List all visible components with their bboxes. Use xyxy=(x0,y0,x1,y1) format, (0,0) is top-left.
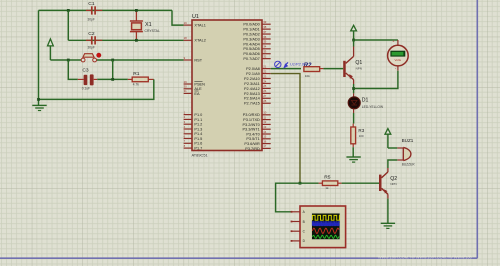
pin P2.5/A13 (26) xyxy=(244,89,271,96)
svg-text:36: 36 xyxy=(263,35,267,39)
svg-text:P2.5/A13: P2.5/A13 xyxy=(244,92,260,96)
svg-text:25: 25 xyxy=(263,84,267,88)
wire buzzer bottom to Q2 collector xyxy=(388,160,397,168)
net label text U1/P2.0 xyxy=(290,62,305,67)
svg-text:13: 13 xyxy=(263,125,267,129)
svg-text:P0.0/AD0: P0.0/AD0 xyxy=(243,23,259,27)
svg-text:P1.5: P1.5 xyxy=(194,137,202,141)
svg-text:LED-YELLOW: LED-YELLOW xyxy=(362,105,384,109)
wire voltmeter top xyxy=(354,39,398,41)
pin P0.7/AD7 (32) xyxy=(243,54,270,61)
scope pin D xyxy=(291,239,306,243)
svg-text:P1.2: P1.2 xyxy=(194,123,202,127)
svg-text:PSEN: PSEN xyxy=(194,82,205,86)
wire P2.1 net (olive) xyxy=(271,74,300,184)
pin P3.0/RXD (10) xyxy=(243,111,271,118)
svg-text:12: 12 xyxy=(263,120,267,124)
pin P1.5 (6) xyxy=(184,134,203,141)
wire Q1 emitter down xyxy=(353,84,355,93)
svg-text:P0.1/AD1: P0.1/AD1 xyxy=(243,28,259,32)
IC U1 AT89C51 body xyxy=(192,14,263,158)
wire ground rail vertical xyxy=(38,10,40,105)
pin P2.7/A15 (28) xyxy=(244,99,271,106)
svg-text:10: 10 xyxy=(263,111,267,115)
svg-text:P2.7/A15: P2.7/A15 xyxy=(244,102,260,106)
resistor R2 label xyxy=(304,62,312,69)
voltmeter DC xyxy=(388,39,409,71)
svg-text:XTAL1: XTAL1 xyxy=(194,24,205,28)
svg-text:P1.6: P1.6 xyxy=(194,142,202,146)
svg-text:P3.1/TXD: P3.1/TXD xyxy=(243,118,260,122)
svg-text:NPN: NPN xyxy=(356,67,362,71)
pin ALE (30) xyxy=(184,85,203,92)
resistor R5 xyxy=(319,175,342,191)
wire voltmeter bottom to emitter xyxy=(354,71,398,89)
pin P0.2/AD2 (37) xyxy=(243,30,270,37)
svg-text:38: 38 xyxy=(263,25,267,29)
svg-text:RST: RST xyxy=(194,58,202,62)
buzzer BUZ1 xyxy=(397,138,415,167)
svg-text:C3: C3 xyxy=(82,68,89,74)
capacitor C3 xyxy=(78,68,97,91)
wire Q2 emitter to ground xyxy=(387,199,389,224)
svg-text:26: 26 xyxy=(263,89,267,93)
svg-text:P1.4: P1.4 xyxy=(194,132,203,136)
push button reset xyxy=(81,53,101,62)
pin P3.7/RD (17) xyxy=(245,144,270,151)
pin P2.3/A11 (24) xyxy=(244,79,270,86)
svg-text:AT89C51: AT89C51 xyxy=(192,152,208,157)
svg-text:23: 23 xyxy=(263,74,267,78)
wire R2 to Q1 base xyxy=(323,68,343,70)
svg-text:P3.4/T0: P3.4/T0 xyxy=(246,132,259,136)
svg-text:P3.5/T1: P3.5/T1 xyxy=(246,137,259,141)
svg-text:P1.7: P1.7 xyxy=(194,147,202,151)
pin P1.2 (3) xyxy=(184,120,203,127)
oscilloscope body xyxy=(300,206,346,248)
pin P2.2/A10 (23) xyxy=(244,74,271,81)
svg-text:BUZZER: BUZZER xyxy=(402,162,415,166)
pin P2.1/A9 (22) xyxy=(246,69,271,76)
net label icon (blue) xyxy=(275,61,289,68)
pin P0.0/AD0 (39) xyxy=(243,20,270,27)
resistor R1 xyxy=(128,71,154,87)
pin P3.2/INT0 (12) xyxy=(242,120,270,127)
svg-text:P0.5/AD5: P0.5/AD5 xyxy=(243,47,259,51)
svg-text:P2.4/A12: P2.4/A12 xyxy=(244,87,260,91)
svg-text:32: 32 xyxy=(263,54,267,58)
svg-text:P0.3/AD3: P0.3/AD3 xyxy=(243,37,259,41)
pin P1.1 (2) xyxy=(184,115,203,122)
svg-text:30pF: 30pF xyxy=(88,18,95,22)
scope trace blue xyxy=(312,222,339,226)
svg-text:BUZ1: BUZ1 xyxy=(402,138,414,143)
svg-text:P2.2/A10: P2.2/A10 xyxy=(244,77,260,81)
pin P3.1/TXD (11) xyxy=(243,115,271,122)
svg-text:P2.3/A11: P2.3/A11 xyxy=(244,82,260,86)
wire R1 to ground rail xyxy=(39,79,154,99)
scope trace green xyxy=(312,235,339,238)
svg-text:P1.0: P1.0 xyxy=(194,113,202,117)
pin P1.7 (8) xyxy=(184,144,203,151)
node Q1 collector junction xyxy=(352,39,355,42)
scope trace red xyxy=(312,228,339,233)
pin P3.6/WR (16) xyxy=(244,139,270,146)
svg-text:21: 21 xyxy=(263,64,267,68)
svg-text:C2: C2 xyxy=(88,31,95,37)
pin P1.4 (5) xyxy=(184,130,204,137)
svg-text:P0.4/AD4: P0.4/AD4 xyxy=(243,42,260,46)
wire C3 branch left xyxy=(68,60,78,79)
svg-text:WWW.100Y.COM.TW WWW.100Y.COM.T: WWW.100Y.COM.TW WWW.100Y.COM.TW WWW.100 xyxy=(378,256,472,260)
pin P0.1/AD1 (38) xyxy=(243,25,270,32)
node RST/R1 junction xyxy=(111,59,114,62)
svg-text:31: 31 xyxy=(184,89,188,93)
power terminal VCC reset xyxy=(48,39,54,60)
svg-text:P2.0/A8: P2.0/A8 xyxy=(246,67,260,71)
pin PSEN (29) xyxy=(184,80,205,87)
pin P0.3/AD3 (36) xyxy=(243,35,270,42)
svg-text:Q1: Q1 xyxy=(355,60,362,66)
svg-text:1k: 1k xyxy=(325,186,329,190)
wire C3 branch right / R1 row xyxy=(97,60,128,79)
node R5 junction xyxy=(299,182,302,185)
svg-text:CRYSTAL: CRYSTAL xyxy=(145,29,160,33)
ground R3 xyxy=(346,157,360,162)
pin P0.6/AD6 (33) xyxy=(243,50,270,57)
svg-text:14: 14 xyxy=(263,130,267,134)
svg-text:P2.6/A14: P2.6/A14 xyxy=(244,97,261,101)
pin P1.0 (1) xyxy=(184,110,203,117)
svg-text:19: 19 xyxy=(184,21,188,25)
wire XTAL1 net drop to pin xyxy=(172,10,184,25)
crystal X1 xyxy=(130,10,160,40)
svg-text:30: 30 xyxy=(184,85,188,89)
svg-text:B: B xyxy=(303,220,305,224)
svg-text:0.1uF: 0.1uF xyxy=(82,86,90,90)
scope pin C xyxy=(291,230,306,234)
svg-text:10k: 10k xyxy=(305,74,310,78)
wire R3 to ground xyxy=(352,147,354,157)
svg-text:16: 16 xyxy=(263,139,267,143)
svg-text:37: 37 xyxy=(263,30,267,34)
svg-text:22: 22 xyxy=(263,69,267,73)
node button/C3 junction xyxy=(67,59,70,62)
svg-text:11: 11 xyxy=(263,115,266,119)
ground Q2 xyxy=(381,223,395,228)
svg-text:100: 100 xyxy=(359,134,364,138)
svg-text:P0.6/AD6: P0.6/AD6 xyxy=(243,52,259,56)
wire RST net horizontal xyxy=(50,59,183,61)
wire buzzer top xyxy=(388,147,397,149)
pin XTAL1 (19) xyxy=(184,21,206,28)
svg-text:XTAL2: XTAL2 xyxy=(194,39,205,43)
wire collector node down xyxy=(353,40,355,47)
pin P2.4/A12 (25) xyxy=(244,84,271,91)
svg-text:R3: R3 xyxy=(358,128,364,133)
pin P2.0/A8 (21) xyxy=(246,64,271,71)
svg-text:35: 35 xyxy=(263,40,267,44)
transistor Q2 NPN xyxy=(379,168,397,199)
wire C1-C2 link vertical xyxy=(67,10,69,40)
resistor R3 xyxy=(351,124,365,148)
svg-text:ALE: ALE xyxy=(194,87,202,91)
node crystal bottom junction xyxy=(135,39,138,42)
scope trace yellow xyxy=(312,215,339,220)
svg-text:P1.1: P1.1 xyxy=(194,118,202,122)
wire P2.0 to R2 xyxy=(271,68,301,70)
node emitter junction xyxy=(352,87,355,90)
svg-text:P0.7/AD7: P0.7/AD7 xyxy=(243,57,259,61)
ground left xyxy=(32,105,46,110)
svg-text:P1.3: P1.3 xyxy=(194,127,202,131)
pin XTAL2 (18) xyxy=(184,36,206,43)
node crystal top junction xyxy=(135,9,138,12)
svg-text:P3.7/RD: P3.7/RD xyxy=(245,147,260,151)
svg-text:39: 39 xyxy=(263,20,267,24)
node C1/C2 junction xyxy=(67,9,70,12)
pin P0.5/AD5 (34) xyxy=(243,45,270,52)
svg-text:Volts: Volts xyxy=(395,58,402,62)
power terminal VCC buzzer xyxy=(385,129,391,148)
svg-text:17: 17 xyxy=(263,144,267,148)
pin P3.3/INT1 (13) xyxy=(242,125,270,132)
svg-text:D1: D1 xyxy=(362,98,369,104)
svg-text:34: 34 xyxy=(263,45,267,49)
pin P3.5/T1 (15) xyxy=(246,135,270,142)
svg-text:27: 27 xyxy=(263,94,267,98)
svg-text:R1: R1 xyxy=(133,71,140,77)
svg-text:4.7k: 4.7k xyxy=(133,82,139,86)
svg-text:P0.2/AD2: P0.2/AD2 xyxy=(243,32,259,36)
svg-text:U1: U1 xyxy=(192,14,199,20)
svg-text:15: 15 xyxy=(263,135,267,139)
wire R5 to Q2 base xyxy=(342,182,379,184)
capacitor C2 xyxy=(86,31,102,50)
wire XTAL2 net horizontal xyxy=(68,39,183,41)
svg-text:P3.3/INT1: P3.3/INT1 xyxy=(242,128,259,132)
scope pin B xyxy=(291,220,305,224)
pin P1.3 (4) xyxy=(184,125,203,132)
svg-text:X1: X1 xyxy=(145,22,152,28)
svg-text:P2.1/A9: P2.1/A9 xyxy=(246,72,260,76)
svg-text:P3.0/RXD: P3.0/RXD xyxy=(243,113,260,117)
wire junction to scope branch xyxy=(276,183,300,212)
node ground rail junction xyxy=(37,98,40,101)
pin RST (9) xyxy=(184,56,203,63)
svg-text:EA: EA xyxy=(194,92,200,96)
pin P2.6/A14 (27) xyxy=(244,94,271,101)
pin P3.4/T0 (14) xyxy=(246,130,270,137)
pin P1.6 (7) xyxy=(184,139,203,146)
svg-text:C1: C1 xyxy=(88,1,95,7)
power terminal VCC Q1 xyxy=(351,25,357,40)
svg-text:P3.6/WR: P3.6/WR xyxy=(244,142,260,146)
svg-text:29: 29 xyxy=(184,80,188,84)
sheet border right (blue) xyxy=(476,0,478,258)
scope pin A xyxy=(291,210,306,214)
resistor R2 xyxy=(304,67,324,78)
capacitor C1 xyxy=(86,1,102,22)
transistor Q1 NPN xyxy=(343,47,362,85)
LED D1 xyxy=(348,93,384,113)
svg-text:24: 24 xyxy=(263,79,267,83)
svg-text:33: 33 xyxy=(263,50,267,54)
node C3/R1 junction xyxy=(111,78,114,81)
watermark xyxy=(378,256,472,260)
svg-text:28: 28 xyxy=(263,99,267,103)
svg-text:Q2: Q2 xyxy=(390,176,397,182)
wire junction to R5 xyxy=(300,182,319,184)
wire XTAL1 net top horizontal xyxy=(39,9,173,11)
svg-text:P3.2/INT0: P3.2/INT0 xyxy=(242,123,259,127)
svg-text:30pF: 30pF xyxy=(88,45,95,49)
svg-text:R5: R5 xyxy=(324,175,331,181)
pin EA (31) xyxy=(184,89,200,96)
wire LED to R3 xyxy=(353,113,355,124)
svg-text:NPN: NPN xyxy=(390,182,396,186)
svg-text:18: 18 xyxy=(184,36,188,40)
pin P0.4/AD4 (35) xyxy=(243,40,270,47)
sheet border bottom (blue) xyxy=(0,257,477,259)
